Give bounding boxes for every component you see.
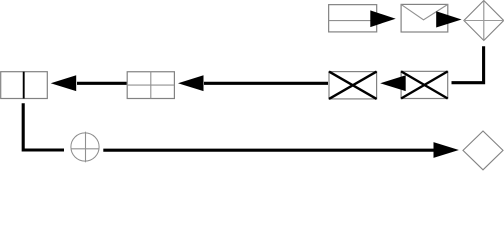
arrow F to diamond D2 (tail and head) [103, 142, 459, 158]
arrow E to D (head only) [380, 75, 406, 91]
box C (2x2 grid rectangle) [127, 72, 174, 99]
envelope (closed envelope shape) [401, 4, 448, 32]
box D (crossed rectangle, middle row center) [329, 72, 377, 99]
arrow C to B (tail and head) [51, 75, 127, 91]
connector wire B down-right to circle F [23, 103, 64, 150]
box E (crossed rectangle, middle row right) [401, 71, 448, 98]
arrow A to envelope [370, 10, 395, 27]
box B (rectangle with thick vertical divider, middle row left) [1, 72, 48, 99]
arrow D to C (tail and head) [178, 75, 328, 91]
connector wire D1 down-left to box E [452, 46, 484, 82]
diamond D1 (with vertex-to-vertex cross lines, top right) [464, 1, 504, 41]
arrow envelope to diamond D1 [436, 11, 461, 27]
box A (rectangle with horizontal divider, top row left) [329, 5, 377, 32]
diamond D2 (empty, bottom right) [463, 131, 503, 170]
circle F (circled plus junction) [71, 132, 99, 163]
